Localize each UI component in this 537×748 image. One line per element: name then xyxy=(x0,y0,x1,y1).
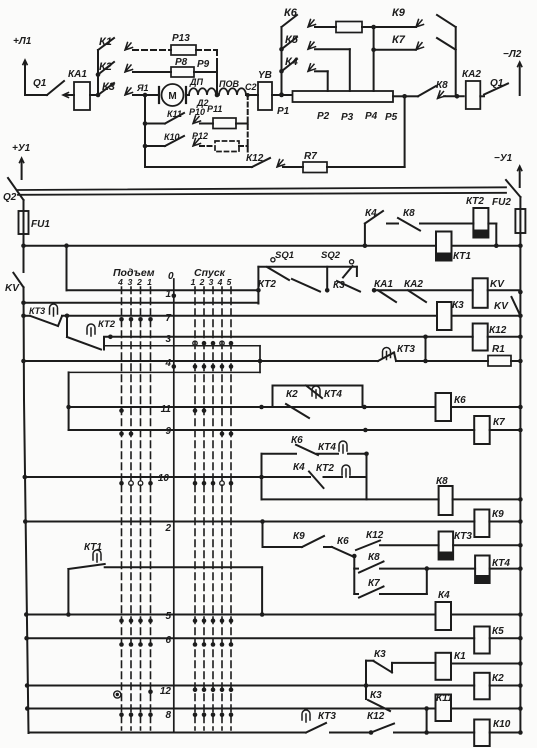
svg-text:1: 1 xyxy=(191,277,196,287)
svg-text:3: 3 xyxy=(165,334,171,345)
svg-text:К6: К6 xyxy=(284,7,298,19)
svg-text:FU1: FU1 xyxy=(31,219,50,230)
svg-text:К6: К6 xyxy=(454,395,466,406)
svg-text:Р1: Р1 xyxy=(277,106,290,117)
svg-text:КТ3: КТ3 xyxy=(397,344,415,355)
svg-text:Р3: Р3 xyxy=(341,112,354,123)
svg-text:К4: К4 xyxy=(365,208,377,219)
svg-text:ДП: ДП xyxy=(189,77,203,87)
svg-text:Р8: Р8 xyxy=(175,57,188,68)
svg-text:К3: К3 xyxy=(102,81,115,93)
svg-text:KV: KV xyxy=(490,279,505,290)
svg-text:К6: К6 xyxy=(291,435,303,446)
svg-text:4: 4 xyxy=(164,358,171,369)
svg-text:YB: YB xyxy=(258,70,272,81)
svg-text:Р9: Р9 xyxy=(197,59,210,70)
svg-text:К11: К11 xyxy=(167,109,182,119)
svg-text:КТ4: КТ4 xyxy=(324,389,342,400)
svg-text:К7: К7 xyxy=(392,34,406,46)
svg-text:К2: К2 xyxy=(286,389,298,400)
svg-text:FU2: FU2 xyxy=(492,197,511,208)
svg-text:SQ1: SQ1 xyxy=(275,250,294,261)
svg-text:6: 6 xyxy=(165,635,171,646)
svg-text:КТ4: КТ4 xyxy=(492,558,510,569)
svg-text:К12: К12 xyxy=(366,530,384,541)
svg-text:Р11: Р11 xyxy=(207,104,222,114)
svg-text:К12: К12 xyxy=(246,153,264,164)
svg-text:7: 7 xyxy=(165,313,171,324)
svg-text:Я1: Я1 xyxy=(136,83,149,93)
svg-text:К9: К9 xyxy=(392,7,406,19)
svg-text:1: 1 xyxy=(165,289,171,300)
svg-text:К7: К7 xyxy=(493,417,505,428)
svg-text:2: 2 xyxy=(199,277,205,287)
svg-text:К12: К12 xyxy=(489,325,507,336)
svg-text:КТ2: КТ2 xyxy=(466,196,484,207)
svg-text:2: 2 xyxy=(164,523,171,534)
svg-text:К5: К5 xyxy=(492,626,504,637)
svg-text:3: 3 xyxy=(128,277,133,287)
svg-text:8: 8 xyxy=(165,710,171,721)
svg-text:Р13: Р13 xyxy=(172,33,190,44)
svg-text:К10: К10 xyxy=(164,132,180,142)
svg-text:К4: К4 xyxy=(285,56,298,68)
svg-text:КА1: КА1 xyxy=(374,279,393,290)
svg-text:КТ2: КТ2 xyxy=(316,463,334,474)
svg-text:5: 5 xyxy=(165,611,171,622)
svg-text:М: М xyxy=(168,91,176,102)
svg-text:ПОВ: ПОВ xyxy=(219,79,239,89)
svg-text:КА2: КА2 xyxy=(404,279,423,290)
svg-text:+У1: +У1 xyxy=(12,143,31,154)
svg-text:−Л2: −Л2 xyxy=(503,49,522,60)
svg-text:К11: К11 xyxy=(436,693,453,704)
svg-text:1: 1 xyxy=(147,277,152,287)
svg-text:12: 12 xyxy=(160,686,172,697)
svg-text:Р4: Р4 xyxy=(365,111,378,122)
svg-text:К1: К1 xyxy=(99,36,112,48)
svg-text:Q2: Q2 xyxy=(3,192,17,203)
svg-text:К10: К10 xyxy=(493,719,511,730)
svg-text:С2: С2 xyxy=(245,82,257,92)
svg-text:К6: К6 xyxy=(337,536,349,547)
svg-text:KV: KV xyxy=(5,283,20,294)
svg-text:К5: К5 xyxy=(285,34,299,46)
svg-text:К3: К3 xyxy=(370,690,382,701)
svg-text:КТ3: КТ3 xyxy=(29,306,45,316)
svg-text:Р2: Р2 xyxy=(317,111,330,122)
svg-text:Р12: Р12 xyxy=(192,131,208,141)
svg-text:−У1: −У1 xyxy=(494,153,513,164)
svg-text:К8: К8 xyxy=(368,552,380,563)
svg-text:К9: К9 xyxy=(492,509,504,520)
svg-text:К1: К1 xyxy=(454,651,466,662)
svg-text:К4: К4 xyxy=(438,590,450,601)
svg-text:КТ1: КТ1 xyxy=(453,251,471,262)
svg-text:10: 10 xyxy=(158,473,170,484)
svg-text:К8: К8 xyxy=(436,476,448,487)
svg-text:КА2: КА2 xyxy=(462,69,481,80)
svg-text:4: 4 xyxy=(117,277,123,287)
svg-text:КТ3: КТ3 xyxy=(318,711,336,722)
svg-text:Q1: Q1 xyxy=(490,78,504,89)
svg-text:К7: К7 xyxy=(368,578,380,589)
svg-text:Р5: Р5 xyxy=(385,112,398,123)
svg-text:3: 3 xyxy=(209,277,214,287)
svg-text:К8: К8 xyxy=(403,208,415,219)
svg-text:11: 11 xyxy=(161,404,172,415)
svg-text:SQ2: SQ2 xyxy=(321,250,341,261)
svg-text:К9: К9 xyxy=(293,531,305,542)
svg-text:КТ4: КТ4 xyxy=(318,442,336,453)
svg-text:КТ3: КТ3 xyxy=(454,531,472,542)
svg-text:4: 4 xyxy=(217,277,223,287)
svg-text:К12: К12 xyxy=(367,711,385,722)
svg-text:К3: К3 xyxy=(452,300,464,311)
svg-text:+Л1: +Л1 xyxy=(13,36,32,47)
svg-text:R7: R7 xyxy=(304,151,317,162)
svg-text:К3: К3 xyxy=(374,649,386,660)
svg-text:5: 5 xyxy=(227,277,232,287)
svg-text:К4: К4 xyxy=(293,462,305,473)
svg-text:2: 2 xyxy=(136,277,142,287)
svg-text:Q1: Q1 xyxy=(33,78,47,89)
svg-text:К2: К2 xyxy=(99,61,112,73)
svg-text:KV: KV xyxy=(494,301,509,312)
svg-text:К2: К2 xyxy=(492,673,504,684)
svg-text:КТ2: КТ2 xyxy=(98,319,116,330)
svg-text:R1: R1 xyxy=(492,344,505,355)
svg-text:КА1: КА1 xyxy=(68,69,87,80)
svg-text:Р10: Р10 xyxy=(189,107,205,117)
svg-text:9: 9 xyxy=(165,426,171,437)
svg-text:К8: К8 xyxy=(436,80,448,91)
svg-text:КТ2: КТ2 xyxy=(258,279,276,290)
